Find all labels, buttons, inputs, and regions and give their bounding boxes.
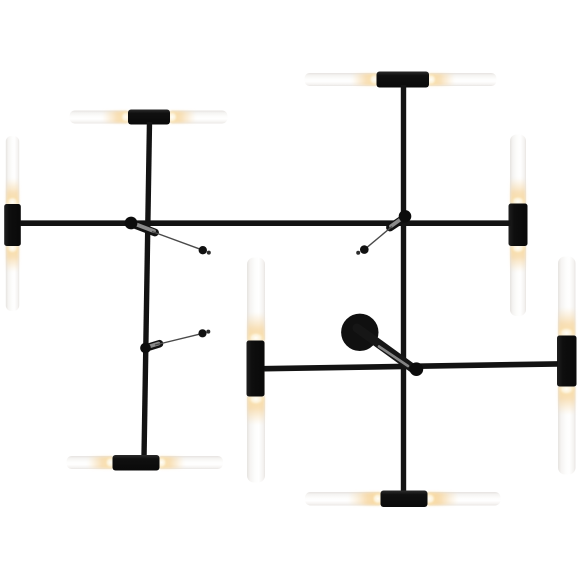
lamp tube bottom-left horizontal right segment	[156, 456, 223, 469]
glow middle-vertical lower	[248, 397, 265, 426]
joint sleeve on left stem	[147, 344, 160, 348]
rod left-vertical stem	[144, 122, 150, 458]
lamp tube top-left horizontal left segment	[70, 111, 131, 124]
glow left-vertical lower	[6, 246, 18, 272]
bracket upper-right-vertical	[509, 204, 528, 247]
lamp tube bottom-right horizontal right segment	[425, 492, 501, 506]
holder top-right lamp	[377, 72, 430, 88]
glow lower-right-vertical lower	[559, 387, 576, 416]
lamp tube middle-vertical	[247, 258, 265, 483]
wire at left crossing	[152, 232, 201, 250]
glow top-left lamp left	[102, 111, 128, 123]
wire end ball at right crossing	[360, 245, 369, 254]
bracket middle-vertical	[247, 341, 265, 397]
wire end nub at left crossing	[207, 251, 211, 255]
glow upper-right-vertical upper	[511, 178, 526, 204]
glow bottom-left lamp left	[87, 457, 113, 469]
lamp tube left-vertical	[6, 136, 19, 311]
wire end nub at right crossing	[356, 251, 360, 255]
wire end ball at left crossing	[199, 246, 207, 254]
glow middle-vertical upper	[248, 312, 265, 341]
lamp tube top-right horizontal right segment	[426, 73, 497, 86]
joint sleeve at right crossing	[390, 220, 402, 228]
canopy stem rod	[357, 328, 413, 369]
rod right-vertical stem	[401, 85, 406, 491]
joint pivot ball on left stem	[140, 343, 151, 354]
joint pivot ball on bar at left crossing	[125, 217, 138, 230]
main upper horizontal bar	[20, 220, 511, 226]
lamp tube bottom-right horizontal left segment	[305, 492, 384, 506]
holder top-left lamp	[128, 110, 170, 125]
ceiling canopy disc	[341, 314, 378, 351]
wire at right crossing	[367, 227, 393, 248]
glow bottom-right lamp right	[428, 493, 459, 506]
lamp tube lower-right-vertical	[558, 257, 576, 475]
bracket left-vertical	[4, 204, 21, 246]
glow top-right lamp right	[429, 74, 455, 86]
glow left-vertical upper	[6, 178, 18, 204]
lamp tube bottom-left horizontal left segment	[67, 456, 117, 469]
lamp tube top-right horizontal left segment	[305, 73, 381, 86]
lamp tube top-left horizontal right segment	[168, 111, 228, 124]
holder bottom-right lamp	[381, 491, 428, 508]
lower horizontal bar	[265, 364, 559, 369]
canopy stem end ball	[410, 362, 424, 376]
glow top-left lamp right	[170, 111, 196, 123]
glow bottom-left lamp right	[160, 457, 186, 469]
joint pivot ball on bar at right crossing	[399, 210, 412, 223]
glow top-right lamp left	[351, 74, 377, 86]
joint sleeve at left crossing	[134, 225, 155, 233]
wire on left stem joint	[155, 334, 201, 345]
glow bottom-right lamp left	[348, 493, 381, 506]
wire end ball on left stem joint	[198, 329, 206, 337]
glow upper-right-vertical lower	[511, 246, 526, 272]
glow lower-right-vertical upper	[559, 307, 576, 336]
lamp tube upper-right-vertical	[510, 135, 526, 317]
holder bottom-left lamp	[113, 455, 160, 471]
bracket lower-right-vertical	[557, 336, 577, 387]
wire end nub on left stem joint	[206, 330, 210, 334]
